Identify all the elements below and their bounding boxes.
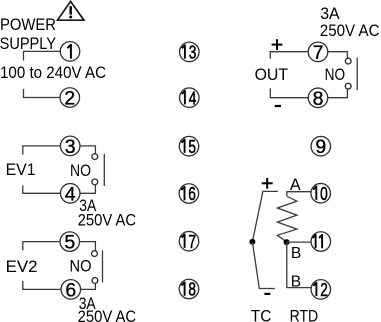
terminal 18 xyxy=(179,279,199,300)
terminal 10 xyxy=(311,183,331,204)
wire EV2 to terminal 6 xyxy=(23,281,61,289)
wire OUT to terminal 7 xyxy=(270,52,308,59)
svg-text:5: 5 xyxy=(188,136,196,157)
svg-text:0: 0 xyxy=(320,183,328,204)
svg-text:250V AC: 250V AC xyxy=(320,21,380,40)
terminal 8 xyxy=(308,88,328,110)
wire OUT to terminal 8 xyxy=(270,88,308,97)
wire terminal 5 to relay contact xyxy=(80,242,96,251)
svg-text:OUT: OUT xyxy=(255,66,289,84)
wire EV2 to terminal 5 xyxy=(23,242,60,251)
svg-text:100 to 240V AC: 100 to 240V AC xyxy=(0,63,106,82)
wire relay contact to terminal 8 xyxy=(328,89,348,98)
warning symbol triangle xyxy=(58,1,84,20)
wire relay contact to terminal 6 xyxy=(81,284,96,290)
wire power supply to terminal 1 xyxy=(24,51,61,60)
svg-text:7: 7 xyxy=(313,42,324,64)
svg-text:6: 6 xyxy=(65,279,76,301)
terminal 9 xyxy=(311,136,331,158)
svg-text:250V AC: 250V AC xyxy=(78,308,137,322)
thermocouple TC top lead xyxy=(252,191,277,241)
svg-text:8: 8 xyxy=(313,88,324,110)
terminal 15 xyxy=(179,136,199,157)
terminal 14 xyxy=(180,87,200,108)
terminal 17 xyxy=(179,231,199,252)
svg-text:2: 2 xyxy=(320,279,328,300)
svg-text:6: 6 xyxy=(188,183,196,204)
svg-text:POWER: POWER xyxy=(0,16,56,34)
svg-text:3: 3 xyxy=(65,136,76,158)
svg-text:4: 4 xyxy=(189,87,197,108)
wire terminal 3 to relay contact xyxy=(80,146,96,154)
terminal 13 xyxy=(180,42,200,63)
node RTD junction xyxy=(284,239,290,245)
svg-text:5: 5 xyxy=(64,232,75,254)
relay EV1 NO contact bottom xyxy=(92,179,98,185)
svg-text:B: B xyxy=(291,274,301,291)
svg-text:TC: TC xyxy=(251,306,272,322)
svg-text:4: 4 xyxy=(65,183,76,205)
relay EV2 blade xyxy=(102,250,104,282)
relay OUT NO contact bottom xyxy=(345,83,351,89)
wire terminal 7 to relay contact xyxy=(328,52,348,58)
svg-text:SUPPLY: SUPPLY xyxy=(0,35,56,53)
svg-text:7: 7 xyxy=(188,231,196,252)
relay EV2 NO contact bottom xyxy=(92,278,98,284)
terminal 7 xyxy=(308,42,328,64)
svg-text:NO: NO xyxy=(70,162,91,180)
svg-text:RTD: RTD xyxy=(290,306,319,322)
minus sign (TC) xyxy=(264,293,270,295)
terminal 2 xyxy=(60,88,80,110)
wire RTD junction to terminal 11 xyxy=(287,241,311,243)
svg-text:2: 2 xyxy=(64,88,75,110)
svg-text:8: 8 xyxy=(188,279,196,300)
terminal 16 xyxy=(179,183,199,204)
relay EV1 NO contact top xyxy=(92,154,98,160)
plus sign (TC) xyxy=(262,178,273,189)
minus sign (OUT) xyxy=(275,105,281,107)
terminal 6 xyxy=(61,279,81,301)
wire RTD A to terminal 10 xyxy=(287,192,311,197)
svg-text:EV1: EV1 xyxy=(6,161,36,179)
terminal 5 xyxy=(60,232,80,254)
relay OUT NO contact top xyxy=(345,58,351,64)
relay EV2 NO contact top xyxy=(92,251,98,257)
wire EV1 to terminal 3 xyxy=(23,146,61,155)
svg-text:3: 3 xyxy=(189,42,197,63)
svg-text:B: B xyxy=(291,245,301,262)
wire power supply to terminal 2 xyxy=(24,89,61,98)
svg-text:NO: NO xyxy=(325,66,346,84)
RTD resistor zigzag xyxy=(277,196,297,242)
plus sign (OUT) xyxy=(272,39,283,50)
terminal 11 xyxy=(311,232,331,252)
svg-text:250V AC: 250V AC xyxy=(78,212,137,230)
relay EV1 blade xyxy=(103,154,105,186)
label POWER SUPPLY xyxy=(0,16,56,53)
relay OUT blade xyxy=(356,57,358,90)
terminal 4 xyxy=(60,183,80,205)
node TC junction xyxy=(249,239,255,245)
wire relay contact to terminal 4 xyxy=(80,185,95,194)
terminal 1 xyxy=(60,42,80,62)
svg-text:EV2: EV2 xyxy=(6,258,38,276)
wire RTD junction to terminal 12 xyxy=(287,242,311,288)
thermocouple TC bottom lead xyxy=(252,242,275,289)
terminal 12 xyxy=(311,279,331,300)
svg-text:NO: NO xyxy=(70,258,92,276)
terminal 3 xyxy=(60,136,80,158)
wire EV1 to terminal 4 xyxy=(23,185,61,193)
svg-text:9: 9 xyxy=(315,136,326,158)
